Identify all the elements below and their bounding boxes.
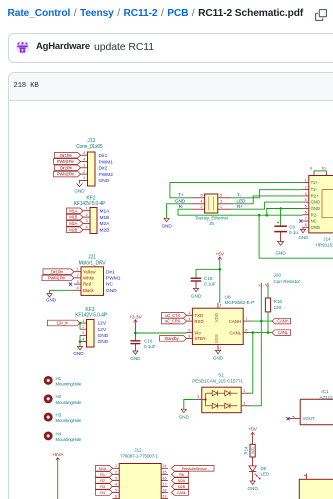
resistor R14 [250, 444, 255, 457]
svg-text:3: 3 [305, 192, 307, 196]
svg-text:CANH: CANH [229, 319, 241, 324]
svg-text:Dir2: Dir2 [99, 166, 108, 172]
svg-text:R+: R+ [237, 204, 243, 209]
svg-text:M2B: M2B [100, 228, 110, 234]
ground C8 [278, 242, 284, 246]
wire J10 pin1 to CANH [260, 289, 262, 322]
svg-text:PWM2: PWM2 [99, 172, 114, 178]
wire R16 to CANL [267, 312, 269, 333]
svg-text:GND: GND [299, 235, 309, 240]
J21 pins [74, 271, 81, 273]
mounting hole H2 [45, 396, 51, 402]
svg-text:15: 15 [163, 470, 167, 474]
no-connect IC1 [286, 417, 289, 420]
label Dir2Pin [55, 165, 81, 171]
svg-text:Dir2Pin: Dir2Pin [60, 165, 73, 170]
wire bottom loop to right edge [259, 215, 333, 258]
ground J21 [47, 294, 52, 297]
svg-text:10: 10 [322, 167, 326, 171]
svg-text:R16: R16 [274, 299, 283, 304]
svg-text:J5: J5 [209, 221, 214, 226]
svg-text:3: 3 [197, 395, 199, 399]
svg-text:VDD: VDD [214, 313, 219, 322]
wire J21 pin4 to ground [50, 290, 75, 293]
esd diode S1 body [202, 387, 241, 413]
U8 top pin VDD [217, 303, 219, 308]
connector J13 body [88, 152, 96, 186]
svg-text:Dir1: Dir1 [99, 153, 108, 159]
label M1A [67, 208, 84, 214]
svg-text:12V: 12V [98, 327, 107, 333]
J14 internal graphic [322, 190, 333, 218]
svg-text:+5V: +5V [215, 251, 224, 257]
svg-text:Vio: Vio [194, 330, 201, 335]
connector KF3 body [87, 320, 95, 348]
label R4 [96, 490, 113, 496]
S1 internal junction [205, 393, 207, 406]
svg-text:3: 3 [219, 303, 221, 307]
svg-text:3: 3 [115, 476, 117, 480]
svg-text:CANL: CANL [229, 330, 241, 335]
label Dir1Pin [55, 152, 81, 158]
commit bar [8, 33, 333, 63]
ground C15 [193, 288, 198, 291]
svg-text:S1: S1 [218, 372, 224, 377]
svg-text:CANH: CANH [277, 319, 288, 324]
svg-text:4: 4 [82, 337, 84, 341]
svg-text:MountingHole: MountingHole [56, 418, 83, 423]
svg-text:600: 600 [251, 447, 255, 453]
ic bottom-right body [299, 479, 333, 499]
connector J14 body [309, 176, 333, 233]
svg-text:uC_CRX: uC_CRX [165, 319, 181, 324]
svg-text:PWM2Pin: PWM2Pin [57, 172, 75, 177]
svg-text:19: 19 [163, 494, 167, 498]
wire CANH to S1 pin1 [251, 321, 262, 406]
svg-text:R3: R3 [100, 484, 105, 489]
svg-text:14: 14 [163, 464, 167, 468]
svg-text:J12: J12 [134, 447, 142, 452]
svg-text:Can Resistor: Can Resistor [274, 279, 301, 284]
svg-text:R14: R14 [244, 446, 249, 454]
flag CANL [272, 330, 291, 336]
svg-text:LED: LED [237, 199, 247, 204]
svg-text:12V_In: 12V_In [56, 321, 69, 326]
label M2B [172, 484, 189, 490]
teensy ethernet body [205, 194, 218, 213]
svg-text:4: 4 [77, 286, 79, 290]
svg-text:H4: H4 [56, 431, 62, 436]
svg-text:8: 8 [305, 223, 307, 227]
svg-text:4: 4 [201, 200, 203, 204]
svg-text:2: 2 [201, 205, 203, 209]
svg-text:4: 4 [188, 317, 190, 321]
svg-text:Motor1_DRV: Motor1_DRV [79, 260, 107, 266]
no-connect J14 pin7 [299, 219, 302, 222]
svg-text:2: 2 [305, 186, 307, 190]
label M2A [67, 221, 84, 227]
svg-text:R-: R- [179, 204, 184, 209]
svg-text:12V: 12V [98, 321, 107, 327]
svg-text:1: 1 [86, 207, 88, 211]
no-connect J21 pin3 [69, 283, 72, 286]
KF3 pins [80, 322, 87, 324]
svg-text:6: 6 [201, 194, 203, 198]
svg-text:T-: T- [237, 193, 242, 198]
svg-text:3: 3 [220, 200, 222, 204]
svg-text:120: 120 [274, 305, 282, 310]
svg-text:Standby: Standby [165, 336, 180, 341]
svg-text:M2B: M2B [69, 227, 77, 232]
wire LED to J14 pin3 [231, 196, 303, 204]
connector J10 pins [260, 283, 262, 289]
wire +5VA down [57, 461, 59, 499]
svg-text:Dir1Pin: Dir1Pin [60, 153, 73, 158]
svg-text:5: 5 [115, 488, 117, 492]
svg-text:H2: H2 [56, 394, 62, 399]
svg-text:5: 5 [220, 194, 222, 198]
svg-text:VSS: VSS [214, 334, 219, 343]
svg-text:C15771: C15771 [227, 378, 244, 383]
copy icon [315, 9, 327, 21]
J12 right pins [161, 467, 168, 469]
svg-text:R6: R6 [179, 472, 184, 477]
J14 left pins [303, 181, 309, 183]
label R6 [172, 472, 189, 478]
svg-text:LED: LED [261, 472, 270, 477]
svg-text:M2A: M2A [178, 478, 186, 483]
svg-text:R2: R2 [100, 478, 105, 483]
svg-text:STBY: STBY [194, 336, 206, 341]
svg-text:5: 5 [188, 329, 190, 333]
svg-text:PWM1: PWM1 [106, 276, 121, 282]
svg-text:2: 2 [115, 470, 117, 474]
label uC_CTX [162, 313, 187, 319]
svg-text:3: 3 [83, 164, 85, 168]
svg-text:GND: GND [73, 351, 84, 356]
svg-text:GND: GND [161, 224, 172, 229]
wire CANL [250, 332, 273, 334]
label Dir1Pin J21 [43, 269, 74, 275]
svg-text:4: 4 [83, 157, 85, 161]
ic U8 body [192, 308, 243, 344]
resistor R16 [265, 298, 270, 312]
svg-text:CANL: CANL [278, 330, 289, 335]
label CANL J12 [172, 490, 189, 496]
svg-text:Black: Black [83, 288, 95, 293]
ground teensy [164, 218, 169, 221]
svg-text:IC1: IC1 [321, 389, 329, 394]
svg-text:uC_CTX: uC_CTX [165, 313, 180, 318]
svg-text:PWM1: PWM1 [99, 159, 114, 165]
svg-text:R2-: R2- [311, 212, 318, 217]
wire +5V branch to C15 [196, 268, 220, 270]
svg-text:6: 6 [245, 328, 247, 332]
svg-text:U8: U8 [225, 294, 231, 300]
svg-text:1: 1 [82, 319, 84, 323]
svg-text:2: 2 [77, 274, 79, 278]
ground J14 pin8 [300, 229, 305, 232]
svg-text:+3.3V: +3.3V [129, 314, 142, 320]
svg-text:H3: H3 [56, 413, 62, 418]
wire R+ to J14 pin4 [231, 202, 303, 209]
label M1B [67, 214, 84, 220]
svg-text:0.1u: 0.1u [289, 230, 298, 235]
svg-text:16: 16 [163, 476, 167, 480]
label M2A [172, 478, 189, 484]
svg-text:6: 6 [305, 211, 307, 215]
svg-text:+5VA: +5VA [52, 452, 64, 458]
svg-text:TXD: TXD [194, 313, 203, 318]
svg-text:R2+: R2+ [311, 194, 319, 199]
svg-text:RXD: RXD [194, 319, 203, 324]
svg-text:7: 7 [305, 217, 307, 221]
capacitor C16 [134, 333, 136, 340]
KF2 pins [83, 210, 90, 212]
J12 left pins [113, 467, 120, 469]
svg-text:Red: Red [83, 282, 92, 287]
ic bottom-right pin [306, 474, 308, 480]
ground J13 [77, 184, 83, 187]
svg-text:CANL: CANL [177, 490, 188, 495]
svg-text:HR91153: HR91153 [316, 243, 333, 248]
flag CANH [272, 318, 291, 324]
svg-text:2: 2 [243, 389, 245, 393]
svg-text:2: 2 [86, 213, 88, 217]
svg-text:GND: GND [179, 415, 190, 420]
IC1 VOUT pin [289, 418, 301, 420]
svg-text:R1: R1 [100, 472, 105, 477]
svg-text:J10: J10 [274, 273, 282, 278]
svg-text:MCP2562-E-P: MCP2562-E-P [225, 300, 255, 306]
wire CANL to S1 pin2 [251, 333, 253, 394]
svg-text:9: 9 [310, 167, 312, 171]
label R3 [96, 484, 113, 490]
file card header [8, 72, 333, 101]
svg-text:GND: GND [98, 333, 109, 339]
svg-text:MountingHole: MountingHole [56, 437, 83, 442]
svg-text:1: 1 [115, 464, 117, 468]
ground KF3 [77, 347, 82, 350]
svg-text:T+: T+ [178, 193, 184, 198]
svg-text:17: 17 [163, 482, 167, 486]
S1 pins [195, 399, 202, 401]
svg-text:1: 1 [305, 178, 307, 182]
svg-text:M2B: M2B [178, 484, 186, 489]
svg-text:776087-1-775007-1: 776087-1-775007-1 [120, 453, 158, 458]
svg-text:M2A: M2A [69, 221, 77, 226]
svg-text:GND: GND [106, 288, 117, 294]
svg-text:GND: GND [247, 486, 258, 491]
svg-text:C8: C8 [289, 224, 295, 229]
svg-text:GND: GND [99, 178, 110, 184]
svg-text:3: 3 [77, 280, 79, 284]
svg-text:3: 3 [82, 331, 84, 335]
connector KF2 body [90, 208, 97, 234]
svg-text:8: 8 [188, 334, 190, 338]
svg-text:NC: NC [311, 219, 317, 224]
wire CANH [250, 320, 273, 322]
capacitor C15 [195, 269, 197, 277]
U8 left pins [187, 314, 193, 316]
ground S1 [181, 409, 186, 412]
svg-text:1: 1 [243, 402, 245, 406]
svg-text:T2-: T2- [311, 187, 318, 192]
svg-text:PESD1CAN_215: PESD1CAN_215 [192, 378, 226, 383]
svg-text:D5: D5 [261, 466, 267, 471]
S1 internal diodes [206, 392, 213, 394]
wire R14 to D5 [252, 457, 254, 466]
mounting hole H1 [45, 377, 51, 383]
svg-text:KF142V-5.0-4P: KF142V-5.0-4P [75, 313, 107, 319]
svg-text:MountingHole: MountingHole [56, 381, 83, 386]
svg-text:1: 1 [188, 311, 190, 315]
svg-text:M1A: M1A [69, 208, 77, 213]
label R2 [96, 478, 113, 484]
svg-text:1: 1 [83, 176, 85, 180]
svg-text:VOUT: VOUT [303, 416, 316, 421]
wire J10 pin2 to R16 [267, 289, 269, 299]
svg-text:T2+: T2+ [311, 180, 319, 185]
svg-text:0.1uF: 0.1uF [144, 344, 156, 349]
label PWM1Pin [54, 159, 81, 165]
ic IC1 body [300, 399, 333, 425]
svg-text:GND: GND [98, 339, 109, 345]
wire +5V down to U8 VDD [219, 262, 221, 303]
label 12V_In [48, 320, 81, 326]
file body (pdf render background) [8, 101, 333, 499]
connector J12 body [119, 464, 161, 499]
svg-text:7: 7 [245, 317, 247, 321]
wire KF3 pins 3-4 to ground [79, 335, 81, 346]
svg-text:4: 4 [115, 482, 117, 486]
svg-text:C15: C15 [204, 276, 213, 281]
svg-text:Teensy_Ethernet: Teensy_Ethernet [195, 215, 229, 220]
svg-text:5: 5 [305, 204, 307, 208]
svg-text:2: 2 [83, 170, 85, 174]
label Standby [160, 336, 187, 342]
svg-text:3: 3 [86, 219, 88, 223]
wire T+ loop to J14 pin1 [170, 182, 303, 197]
U8 right pins [243, 320, 249, 322]
wire +3.3V to U8 Vio [135, 332, 186, 334]
label M1A J12 [96, 466, 113, 472]
svg-text:GND: GND [311, 225, 321, 230]
svg-text:Dir1: Dir1 [106, 269, 115, 275]
svg-text:GND: GND [311, 200, 321, 205]
svg-text:M1A: M1A [100, 209, 111, 215]
label PWM2Pin [54, 171, 81, 177]
svg-text:H1: H1 [56, 376, 62, 381]
svg-text:PWM1Pin: PWM1Pin [57, 159, 75, 164]
svg-text:White: White [83, 276, 95, 281]
wire KF3 pins 1-2 bridge [79, 323, 81, 329]
wire R- loop bottom [178, 209, 303, 215]
wire S1 pin3 to ground [184, 400, 196, 410]
wire D5 to ground [252, 472, 254, 481]
svg-text:Dir1Pin: Dir1Pin [51, 269, 64, 274]
svg-text:Conn_01x05: Conn_01x05 [76, 144, 103, 150]
svg-text:M2A: M2A [100, 221, 111, 227]
J14 top pins [313, 171, 315, 176]
svg-text:GND: GND [74, 189, 85, 194]
svg-text:GND: GND [46, 298, 57, 303]
svg-text:PWM1Pin: PWM1Pin [48, 276, 66, 281]
svg-text:6: 6 [115, 494, 117, 498]
svg-text:GND: GND [130, 356, 141, 361]
svg-text:C16: C16 [144, 338, 153, 343]
svg-text:J14: J14 [323, 237, 331, 242]
svg-text:KF142V-5.0-4P: KF142V-5.0-4P [74, 201, 106, 207]
svg-text:5: 5 [83, 151, 85, 155]
wire J13 pin1 to ground [80, 180, 81, 183]
ground U8 [215, 350, 220, 353]
svg-text:GND: GND [275, 251, 286, 256]
label PWM1Pin J21 [42, 275, 74, 281]
svg-text:2: 2 [219, 346, 221, 350]
svg-text:GND: GND [213, 356, 224, 361]
teensy ethernet pins [192, 197, 205, 199]
svg-text:0.1uF: 0.1uF [204, 282, 216, 287]
capacitor C8 [280, 209, 282, 226]
svg-text:4: 4 [305, 198, 307, 202]
label R1 [96, 472, 113, 478]
mounting hole H3 [45, 414, 51, 420]
svg-text:PressureSensor: PressureSensor [182, 466, 208, 471]
svg-text:18: 18 [163, 488, 167, 492]
U8 bottom pin VSS [217, 345, 219, 351]
svg-text:1: 1 [220, 205, 222, 209]
svg-text:GND: GND [175, 199, 186, 204]
svg-text:MountingHole: MountingHole [56, 400, 83, 405]
wire teensy GND to ground [167, 204, 192, 219]
svg-text:M1B: M1B [100, 215, 110, 221]
svg-text:4: 4 [86, 226, 88, 230]
J13 pins [81, 154, 88, 156]
svg-text:1: 1 [77, 268, 79, 272]
led D5 [249, 466, 256, 472]
label M2B [67, 227, 84, 233]
svg-text:2: 2 [82, 325, 84, 329]
ground D5 [250, 481, 255, 484]
svg-text:+5V: +5V [248, 427, 257, 433]
label uC_CRX [162, 318, 187, 324]
svg-text:GND: GND [191, 293, 202, 298]
wire T- to J14 pin2 [231, 190, 303, 198]
svg-text:Yellow: Yellow [83, 269, 96, 274]
ground C16 [133, 351, 138, 354]
mounting hole H4 [45, 433, 51, 439]
svg-text:M1B: M1B [69, 215, 77, 220]
svg-text:NC: NC [106, 282, 113, 288]
svg-text:GND: GND [311, 206, 321, 211]
connector J21 body [81, 267, 104, 296]
breadcrumb [8, 5, 304, 21]
wire C8 tap to J14 pin5 [267, 209, 303, 216]
svg-text:M1A: M1A [99, 466, 107, 471]
label PressureSensor [172, 466, 215, 472]
